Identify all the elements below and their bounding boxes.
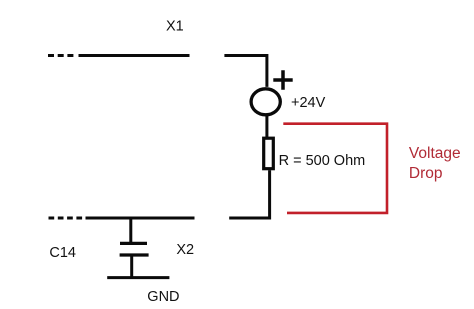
wire top-left dashed lead: [48, 54, 75, 57]
wire bottom-left solid: [86, 217, 195, 220]
svg-text:Voltage: Voltage: [409, 145, 461, 162]
svg-text:GND: GND: [147, 289, 179, 305]
plus polarity mark: [273, 70, 292, 89]
voltage drop bracket: [283, 124, 387, 213]
wire capacitor to ground: [130, 255, 133, 278]
capacitor C14 top plate: [120, 242, 147, 245]
wire bottom-left dashed lead: [49, 217, 84, 220]
svg-text:X1: X1: [166, 19, 184, 35]
wire top-right to source: [224, 56, 267, 87]
wire source to resistor: [265, 115, 268, 138]
capacitor C14 top lead: [129, 219, 132, 243]
svg-text:C14: C14: [49, 245, 76, 261]
resistor R 500 Ohm: [264, 138, 274, 169]
wire top-left solid: [79, 54, 190, 57]
ground: [107, 276, 169, 279]
svg-text:R = 500 Ohm: R = 500 Ohm: [279, 153, 366, 169]
capacitor C14 bottom plate: [120, 253, 149, 256]
svg-text:+24V: +24V: [291, 95, 326, 111]
svg-text:Drop: Drop: [409, 165, 443, 182]
svg-text:X2: X2: [176, 242, 194, 258]
voltage source V1 +24V: [251, 89, 280, 115]
wire resistor to bottom node: [229, 170, 269, 218]
